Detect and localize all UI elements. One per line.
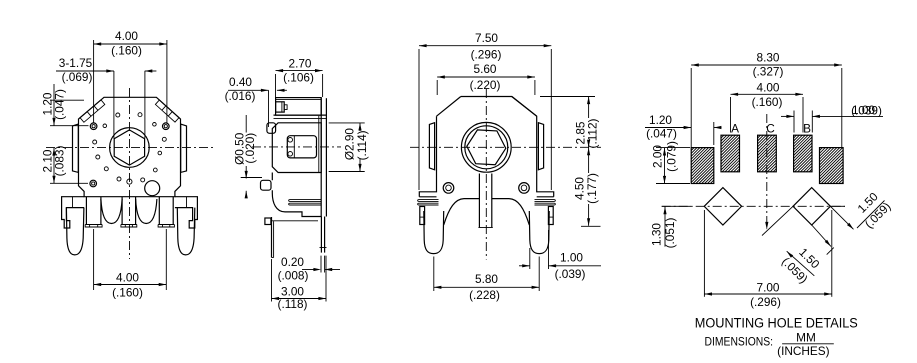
dimension 1.00 view 3: [529, 248, 531, 269]
dimension 2.00 view 4: [656, 147, 690, 149]
view 1 small holes ring: [116, 113, 120, 117]
dimension 7.50 view 3: [418, 49, 420, 190]
view 3 wing foot right: [548, 207, 553, 225]
svg-text:0.20: 0.20: [281, 255, 304, 269]
svg-text:(.118): (.118): [278, 297, 308, 311]
view 4 pad B: [794, 135, 812, 172]
view 4 diagonal extension right diamond bottom: [812, 225, 831, 247]
dimension 4.50 view 3: [588, 147, 590, 173]
dimension 3.00 view 2: [271, 259, 273, 302]
view 1 rivet top-right: [163, 123, 170, 130]
view 1 front outline body: [79, 97, 181, 196]
view 4 diamond hole right: [793, 188, 830, 225]
view 2 cap nub: [276, 102, 285, 112]
svg-text:(.008): (.008): [278, 268, 309, 282]
view 1 knurl band left chamfer: [80, 100, 105, 122]
svg-text:8.30: 8.30: [757, 51, 780, 65]
view 1 web curve right gap: [136, 199, 157, 224]
view 3 wing hairpin tabs left: [418, 200, 439, 205]
view 1 terminal pin center: [121, 197, 123, 225]
dimension 2.10 view 1: [53, 148, 55, 184]
view 1 outer leg right: [177, 208, 195, 255]
svg-text:(.039): (.039): [555, 267, 586, 281]
svg-text:(.020): (.020): [243, 133, 257, 164]
svg-text:0.40: 0.40: [229, 75, 252, 89]
svg-text:(.083): (.083): [52, 146, 66, 177]
svg-text:(.039): (.039): [851, 103, 882, 117]
svg-text:1.20: 1.20: [649, 113, 672, 127]
view 4 vertical centerline C: [766, 114, 768, 229]
svg-text:3-1.75: 3-1.75: [59, 56, 93, 70]
svg-text:(.296): (.296): [750, 295, 781, 309]
dimension 1.00 overlapped view 4: [781, 115, 794, 117]
svg-text:(.079): (.079): [664, 141, 678, 172]
svg-text:2.70: 2.70: [289, 56, 312, 70]
dimension 4.00 bottom view 1: [93, 229, 95, 290]
view 3 rivet right: [519, 183, 530, 194]
svg-text:(.106): (.106): [283, 70, 314, 84]
svg-text:(.220): (.220): [470, 78, 501, 92]
view 1 horizontal centerline: [46, 147, 215, 149]
view 2 cap flange lines: [274, 114, 327, 116]
dimension 4.00 top view 1: [93, 40, 95, 123]
svg-text:2.00: 2.00: [651, 145, 665, 168]
svg-text:7.00: 7.00: [757, 280, 780, 294]
view 3 hex hole: [467, 130, 506, 165]
view 3 rivet left: [443, 183, 454, 194]
svg-text:B: B: [803, 122, 811, 136]
view 2 shaft side profile: [287, 136, 316, 158]
svg-text:4.00: 4.00: [115, 29, 138, 43]
view 1 rivet top-left: [90, 123, 97, 130]
svg-text:(.047): (.047): [52, 89, 66, 120]
view 4 pad A: [721, 135, 740, 172]
view 2 nub bottom-left: [261, 180, 272, 190]
dimension 0.20 view 2: [302, 269, 318, 271]
view 2 horizontal centerline: [252, 146, 341, 148]
dimension 1.30 view 4: [662, 205, 691, 207]
view 1 side tab right: [181, 124, 187, 172]
dimension 1.20 view 4: [645, 127, 691, 129]
dimension 5.60 view 3: [436, 80, 438, 95]
dimension 2.90 dia view 2: [329, 122, 365, 124]
svg-text:MM: MM: [796, 330, 816, 344]
view 4 diagonal construction line: [762, 206, 793, 235]
view 3 shaft inner circle: [465, 126, 508, 169]
view 1 hex hole: [114, 130, 144, 165]
view 3 body outline: [419, 97, 553, 197]
view 3 side tab left: [429, 123, 434, 170]
svg-text:(.160): (.160): [112, 286, 143, 300]
view 4 pad C: [758, 135, 777, 172]
view 2 body box: [272, 123, 321, 173]
view 3 leg left: [424, 211, 444, 254]
dimension 0.50 dia view 2: [245, 115, 247, 133]
svg-text:(.327): (.327): [753, 65, 784, 79]
svg-text:1.30: 1.30: [650, 223, 664, 246]
view 1 bracket left wing: [62, 197, 85, 228]
svg-text:(.069): (.069): [62, 70, 93, 84]
view 1 knurl band right chamfer: [155, 100, 179, 122]
svg-text:1.00: 1.00: [560, 250, 583, 264]
view 2 nub top-left: [267, 123, 276, 134]
svg-text:(.160): (.160): [752, 95, 783, 109]
svg-text:(.047): (.047): [646, 127, 677, 141]
view 3 wing hairpin tabs right: [535, 200, 556, 205]
view 2 bracket comb tabs: [289, 200, 321, 205]
dimension 2.70 view 2: [275, 74, 277, 97]
view 1 bracket right wing: [175, 197, 198, 228]
svg-text:4.00: 4.00: [757, 80, 780, 94]
dimension 1.20 view 1: [53, 84, 55, 126]
view 3 side tab right: [538, 123, 543, 170]
view 1 bracket face lines: [72, 197, 74, 208]
view 3 web profile: [444, 199, 530, 225]
view 4 pad far-right: [820, 148, 844, 184]
svg-text:(.112): (.112): [586, 118, 600, 148]
svg-text:(.051): (.051): [663, 218, 677, 249]
svg-text:7.50: 7.50: [475, 31, 498, 45]
view 2 bracket lower profile: [272, 173, 321, 217]
dimension 3-1.75 view 1: [56, 70, 114, 72]
view 1 outer leg left: [66, 208, 84, 255]
view 1 terminal pin right: [158, 197, 160, 225]
svg-text:(.114): (.114): [355, 130, 369, 160]
view 3 shaft outer circle: [461, 122, 511, 172]
dimension 8.30 view 4: [690, 68, 692, 148]
view 1 large hole bottom-right: [145, 181, 160, 196]
view 1 side tab left: [73, 124, 79, 172]
dimension 5.80 view 3: [433, 257, 435, 292]
view 2 bracket foot tab: [265, 218, 271, 225]
dimension 7.00 view 4: [703, 210, 705, 297]
view 1 rivet bottom-left: [90, 180, 97, 187]
svg-text:5.80: 5.80: [475, 272, 498, 286]
svg-text:MOUNTING HOLE DETAILS: MOUNTING HOLE DETAILS: [695, 316, 858, 332]
svg-text:5.60: 5.60: [474, 62, 497, 76]
view 2 bottom pin: [320, 217, 322, 253]
view 3 center tab: [478, 174, 480, 228]
view 3 horizontal centerline: [410, 146, 601, 148]
dimension 1.50 lower view 4: [787, 251, 815, 276]
view 1 terminal pin left: [85, 197, 87, 225]
view 3 wing foot left: [420, 207, 425, 225]
svg-text:4.00: 4.00: [116, 271, 139, 285]
view 4 pad far-left: [691, 148, 714, 184]
svg-text:(.228): (.228): [469, 288, 500, 302]
view 2 mounting plate: [320, 98, 322, 216]
view 1 shaft circle: [110, 128, 150, 168]
view 2 top cap: [276, 98, 322, 116]
svg-text:C: C: [766, 122, 775, 136]
svg-text:(.296): (.296): [471, 48, 502, 62]
dimension 2.85 view 3: [540, 96, 595, 98]
view 4 diamond hole left: [704, 188, 741, 225]
dimension 4.00 view 4: [730, 97, 732, 133]
dimension 1.50 upper right view 4: [830, 205, 845, 207]
svg-text:(.016): (.016): [225, 89, 256, 103]
view 2 outer leg side: [271, 217, 273, 258]
svg-text:(INCHES): (INCHES): [777, 344, 830, 358]
svg-text:A: A: [731, 122, 739, 136]
view 1 vertical centerline: [129, 88, 131, 259]
svg-text:DIMENSIONS:: DIMENSIONS:: [705, 335, 774, 349]
dimension 0.40 view 2: [228, 89, 269, 91]
view 1 web curve left gap: [101, 199, 122, 224]
svg-text:(.160): (.160): [111, 44, 142, 58]
view 4 horizontal centerline: [662, 205, 845, 207]
view 3 leg right: [529, 211, 549, 254]
svg-text:(.177): (.177): [585, 173, 599, 204]
view 3 vertical centerline: [485, 89, 487, 260]
